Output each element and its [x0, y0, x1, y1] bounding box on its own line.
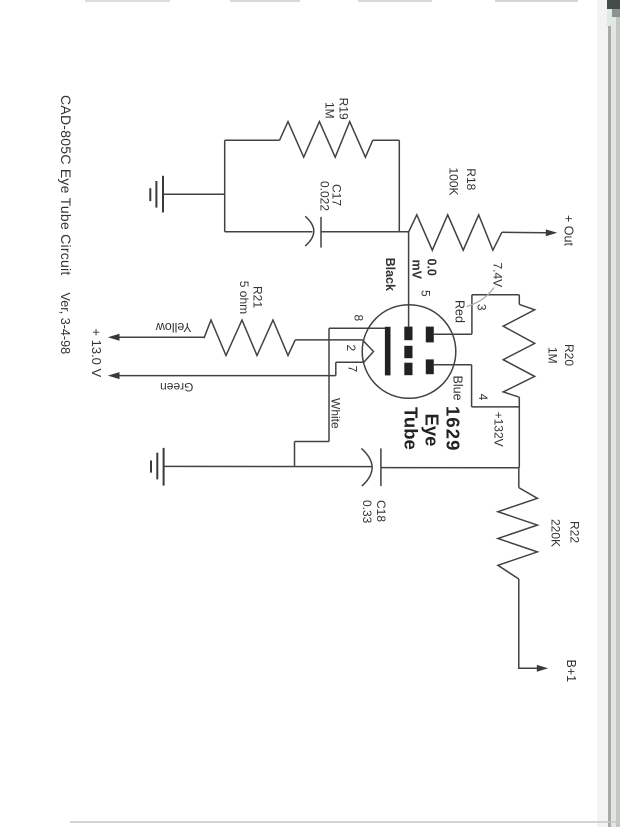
- capacitor C18: [361, 448, 381, 486]
- scan artifact: top edge faint lines: [85, 0, 578, 2]
- tube target bar: [385, 327, 391, 376]
- svg-text:Blue: Blue: [451, 376, 465, 401]
- arrowhead green lead: [108, 372, 120, 379]
- wire R22 to B+1 arrow: [519, 579, 538, 668]
- wire pin 3 top horizontal: [472, 294, 519, 296]
- svg-text:White: White: [329, 398, 343, 429]
- svg-text:0.33: 0.33: [360, 500, 374, 524]
- svg-text:3: 3: [475, 304, 489, 311]
- svg-text:100K: 100K: [447, 168, 461, 196]
- arrowhead + Out: [546, 229, 558, 236]
- svg-text:B+1: B+1: [564, 660, 578, 683]
- wire tube pin 4: [434, 364, 472, 366]
- svg-text:R21: R21: [251, 286, 265, 308]
- tube cathode chevron: [363, 340, 374, 362]
- wire ground bus right: [381, 467, 519, 469]
- svg-text:mV: mV: [410, 260, 424, 280]
- wire to + Out arrow: [502, 231, 547, 233]
- wire junction to tube pin 5: [408, 232, 410, 327]
- svg-text:Red: Red: [453, 300, 467, 323]
- wire ground G1 to loop: [163, 193, 225, 195]
- svg-text:8: 8: [352, 315, 366, 322]
- svg-text:Tube: Tube: [401, 407, 422, 450]
- wire tube pin 8: [329, 327, 385, 329]
- resistor R21: [204, 320, 295, 356]
- svg-text:R20: R20: [562, 344, 576, 366]
- wire loop left side: [224, 140, 226, 232]
- svg-text:R18: R18: [464, 168, 478, 190]
- svg-text:5: 5: [419, 290, 433, 297]
- svg-text:Green: Green: [160, 380, 193, 394]
- wire white vertical: [328, 328, 330, 441]
- callout curve 7.4V: [467, 288, 495, 307]
- svg-text:CAD-805C Eye Tube Circuit: CAD-805C Eye Tube Circuit: [58, 95, 74, 276]
- wire pin 4 bottom horizontal: [472, 406, 520, 408]
- wire pin7 jog down: [335, 362, 337, 375]
- svg-text:Yellow: Yellow: [155, 320, 192, 334]
- svg-text:0.022: 0.022: [318, 181, 332, 211]
- svg-text:4: 4: [476, 394, 490, 401]
- wire pin 4 dropper: [471, 365, 473, 407]
- wire R20 top step: [518, 295, 520, 305]
- tube 1629 envelope: [362, 305, 456, 399]
- wire white step down to bus: [294, 442, 296, 467]
- svg-text:220K: 220K: [549, 519, 563, 547]
- resistor R20: [503, 304, 535, 397]
- svg-text:R19: R19: [337, 98, 351, 120]
- svg-text:5 ohm: 5 ohm: [237, 281, 251, 314]
- resistor R22: [498, 488, 538, 579]
- wire tube pin 7: [336, 361, 364, 363]
- wire yellow lead: [119, 336, 204, 338]
- wire loop bottom left: [225, 231, 313, 233]
- wire white step horizontal: [295, 441, 330, 443]
- ground G2 (lower left): [151, 448, 164, 486]
- resistor R18: [409, 215, 502, 250]
- wire R21 to tube pin 2: [295, 339, 362, 341]
- arrowhead yellow lead: [108, 334, 120, 341]
- svg-text:R22: R22: [568, 521, 582, 543]
- svg-text:7: 7: [346, 366, 360, 373]
- scan artifact: right edge shading: [597, 0, 620, 827]
- wire loop top left: [225, 139, 280, 141]
- capacitor C17: [305, 216, 321, 247]
- svg-text:2: 2: [344, 345, 358, 352]
- wire tube pin 3: [434, 333, 472, 335]
- resistor R19: [280, 122, 373, 158]
- svg-text:Black: Black: [383, 258, 397, 291]
- svg-text:Ver, 3-4-98: Ver, 3-4-98: [58, 293, 72, 355]
- scan artifact: bottom edge line: [70, 821, 620, 823]
- tube grid dash column (pins 5/center): [404, 327, 412, 376]
- arrowhead B+1: [537, 665, 548, 672]
- wire R20 bottom to bus junction: [518, 397, 520, 468]
- ground G1 (upper left): [150, 176, 163, 213]
- svg-text:7.4V: 7.4V: [491, 263, 505, 288]
- wire pin 3 riser: [471, 295, 473, 334]
- svg-text:+132V: +132V: [492, 412, 506, 447]
- wire ground bus left: [164, 465, 372, 467]
- svg-text:Eye: Eye: [422, 414, 443, 447]
- wire loop right side: [398, 140, 400, 232]
- wire green lead: [119, 375, 336, 377]
- svg-text:1M: 1M: [323, 102, 337, 119]
- svg-text:1M: 1M: [546, 347, 560, 364]
- svg-text:C18: C18: [374, 500, 388, 522]
- svg-text:+ 13.0 V: + 13.0 V: [89, 328, 104, 377]
- wire loop bottom right to junction: [321, 231, 409, 233]
- tube deflector dash column (pins 3/4): [426, 327, 434, 375]
- wire bus junction down to R22: [518, 468, 520, 488]
- svg-text:1629: 1629: [443, 406, 464, 452]
- svg-text:+ Out: + Out: [562, 215, 576, 246]
- wire loop top right: [373, 139, 400, 141]
- svg-text:0.0: 0.0: [425, 259, 439, 276]
